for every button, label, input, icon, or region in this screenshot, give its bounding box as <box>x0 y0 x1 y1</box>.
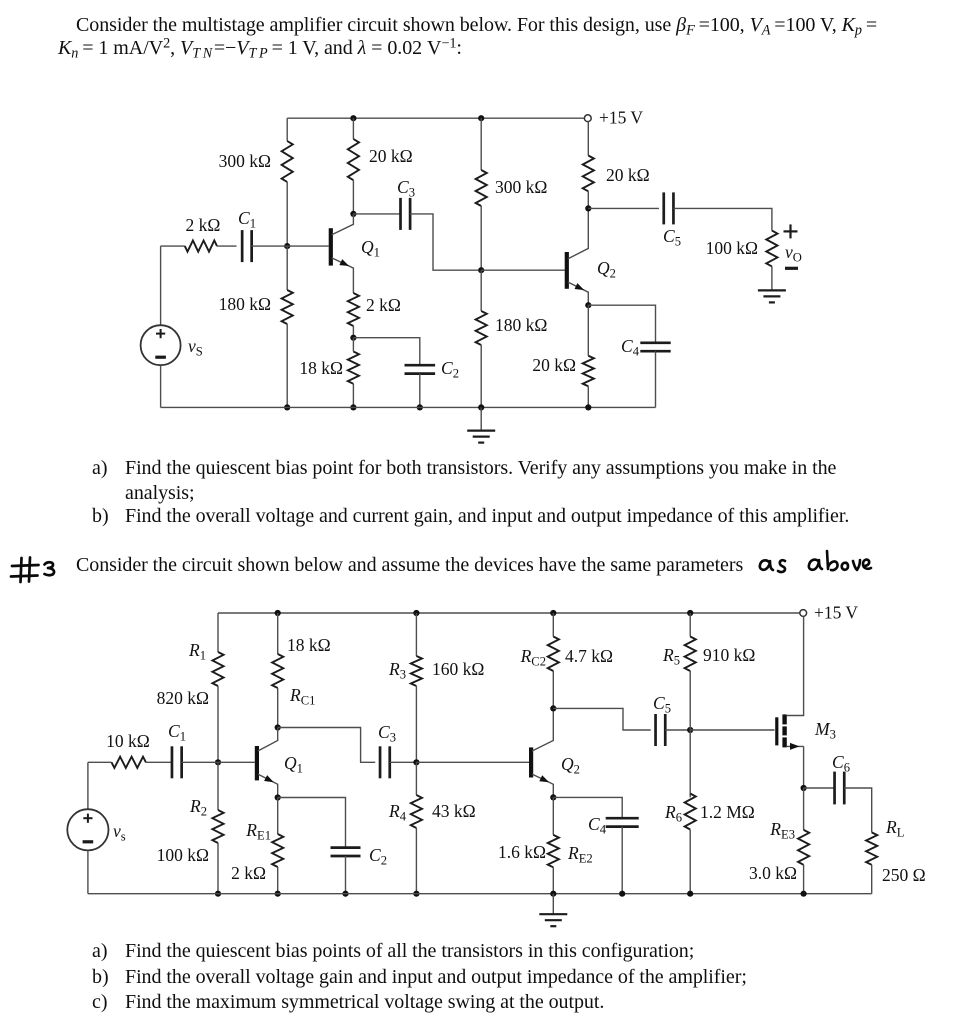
node Q1 base junction <box>284 243 290 249</box>
svg-text:C6: C6 <box>832 752 850 775</box>
resistor R5 910k <box>685 637 696 672</box>
node Q2 collector <box>585 205 591 211</box>
capacitor C1 <box>241 230 244 262</box>
wire collector link to C3 <box>278 728 376 763</box>
capacitor C3 <box>399 198 402 230</box>
svg-text:RE3: RE3 <box>769 819 795 842</box>
resistor RE2 1.6k <box>548 835 559 867</box>
wire R6 to rail <box>689 830 691 894</box>
wire to C1 <box>217 245 237 247</box>
capacitor C4 (2) <box>606 817 639 820</box>
svg-text:RL: RL <box>885 817 904 840</box>
node rail bottom R4 <box>413 891 419 897</box>
resistor 300k stage2 upper <box>476 170 487 206</box>
svg-text:C1: C1 <box>238 208 256 231</box>
wire C1 to base node <box>252 245 288 247</box>
handwritten as <box>760 560 785 572</box>
resistor 18k (emitter bypass leg) <box>348 352 359 384</box>
wire R4 to rail <box>415 828 417 894</box>
wire C6 tap <box>804 787 835 789</box>
resistor R4 43k <box>411 795 422 828</box>
ground symbol main <box>480 407 482 430</box>
resistor RC1 18k <box>272 654 283 688</box>
svg-text:43 kΩ: 43 kΩ <box>432 801 476 821</box>
svg-text:180 kΩ: 180 kΩ <box>219 294 271 314</box>
wire gate <box>690 729 774 731</box>
svg-text:Q1: Q1 <box>361 237 380 260</box>
svg-text:160 kΩ: 160 kΩ <box>432 659 484 679</box>
svg-text:20 kΩ: 20 kΩ <box>606 165 650 185</box>
node rail bottom RE2 <box>550 891 556 897</box>
resistor 20k (Q2 collector) <box>583 156 594 192</box>
wire to bottom rail <box>587 386 589 407</box>
svg-text:vs: vs <box>113 821 126 844</box>
node Q2 collector 2 <box>550 705 556 711</box>
wire source to bottom rail <box>160 365 162 407</box>
wire collector to C5 <box>588 207 659 209</box>
wire 18k to bottom rail <box>352 384 354 408</box>
node bottom rail junction 3 <box>585 404 591 410</box>
wire RC2 top <box>552 613 554 637</box>
wire 20k to collector node <box>587 191 589 208</box>
node Q2 emitter junction 2 <box>550 794 556 800</box>
svg-text:20 kΩ: 20 kΩ <box>532 355 576 375</box>
svg-text:10 kΩ: 10 kΩ <box>106 731 150 751</box>
node rail junction RC1 <box>275 610 281 616</box>
node Q1 collector 2 <box>275 724 281 730</box>
resistor 2k source <box>185 241 217 252</box>
wire C3 to R3 node <box>390 761 417 763</box>
wire 20k collector feed <box>352 118 354 139</box>
resistor RE1 2k <box>272 834 283 867</box>
question list 2 item b <box>92 966 109 989</box>
resistor 10k source 2 <box>112 757 146 768</box>
wire RE1 top <box>277 798 279 835</box>
wire R2 to rail <box>217 843 219 894</box>
svg-text:C3: C3 <box>378 722 396 745</box>
svg-text:M3: M3 <box>814 719 836 742</box>
wire R1 to base <box>217 686 219 762</box>
node Q1 emitter junction <box>275 794 281 800</box>
svg-text:2 kΩ: 2 kΩ <box>186 215 221 235</box>
question list 1 item a <box>92 457 107 480</box>
wire C2 tap <box>353 338 419 366</box>
svg-text:C5: C5 <box>663 226 681 249</box>
wire C1 to base 2 <box>182 761 218 763</box>
wire C2 to bottom rail <box>419 374 421 408</box>
resistor R3 160k <box>411 656 422 686</box>
resistor R1 820k <box>212 652 223 686</box>
wire C4 tap <box>588 305 655 343</box>
wire emitter to node <box>352 326 354 338</box>
node rail bottom RE3 <box>801 891 807 897</box>
power terminal +15 V <box>584 115 591 122</box>
paragraph line 2 <box>58 37 462 60</box>
wire R4 top <box>415 762 417 795</box>
svg-text:910 kΩ: 910 kΩ <box>703 645 755 665</box>
wire +15V to 20k <box>587 122 589 156</box>
wire C6 to RL <box>844 788 872 832</box>
svg-text:RC2: RC2 <box>520 646 546 669</box>
svg-text:C3: C3 <box>397 177 415 200</box>
svg-text:4.7 kΩ: 4.7 kΩ <box>565 646 613 666</box>
svg-text:20 kΩ: 20 kΩ <box>369 146 413 166</box>
node rail junction R5 <box>687 610 693 616</box>
wire R3 to node <box>415 686 417 762</box>
capacitor C4 <box>640 341 670 344</box>
label vo minus <box>785 267 798 270</box>
svg-text:RE1: RE1 <box>245 820 271 843</box>
svg-text:RE2: RE2 <box>567 843 593 866</box>
resistor R6 1.2M <box>685 794 696 830</box>
svg-text:C2: C2 <box>369 845 387 868</box>
node rail bottom R6 <box>687 891 693 897</box>
wire R2 top <box>217 762 219 810</box>
capacitor C3 (2) <box>379 746 382 778</box>
handwritten #3 <box>11 558 54 583</box>
wire Q2 base <box>481 269 529 271</box>
svg-text:100 kΩ: 100 kΩ <box>157 845 209 865</box>
wire input source top <box>161 245 185 247</box>
svg-text:1.6 kΩ: 1.6 kΩ <box>498 842 546 862</box>
node bottom rail junction 2 <box>350 404 356 410</box>
wire mid bus to bottom <box>480 345 482 407</box>
node Q2 base junction <box>478 267 484 273</box>
wire source 2 to rail <box>87 850 89 893</box>
resistor 180k stage2 lower <box>476 311 487 345</box>
node rail bottom R2 <box>215 891 221 897</box>
source vs <box>141 325 181 365</box>
wire top supply rail 2 <box>218 612 800 614</box>
wire collector link to C5 2 <box>553 708 650 730</box>
wire Q1 base 2 <box>218 761 255 763</box>
svg-text:300 kΩ: 300 kΩ <box>219 151 271 171</box>
wire C3 from collector <box>353 213 400 215</box>
wire 20k to collector node <box>352 180 354 214</box>
capacitor C2 <box>405 364 436 367</box>
wire C4 tap 2 <box>553 797 622 818</box>
resistor 180k (R bias lower) <box>282 290 293 324</box>
wire source down <box>803 746 805 788</box>
wire RC1 top <box>277 613 279 654</box>
wire M3 source <box>787 745 804 747</box>
svg-text:18 kΩ: 18 kΩ <box>287 635 331 655</box>
svg-text:3.0 kΩ: 3.0 kΩ <box>749 863 797 883</box>
transistor Q2 (2) <box>529 747 533 777</box>
ground symbol 2 <box>552 894 554 914</box>
wire RE2 top <box>552 797 554 835</box>
svg-text:100 kΩ: 100 kΩ <box>706 238 758 258</box>
svg-text:820 kΩ: 820 kΩ <box>157 688 209 708</box>
wire left bus lower <box>286 246 288 290</box>
wire load to ground <box>771 266 773 289</box>
svg-text:RC1: RC1 <box>289 685 315 708</box>
node C5 R5 junction <box>687 727 693 733</box>
node rail C2 junction <box>342 891 348 897</box>
svg-text:R5: R5 <box>662 645 680 668</box>
transistor Q2 <box>565 252 569 289</box>
wire bottom rail 2 <box>88 893 872 895</box>
wire to C1 2 <box>146 761 172 763</box>
capacitor C2 (2) <box>331 846 361 849</box>
capacitor C6 <box>833 772 836 805</box>
wire mid bus upper <box>480 118 482 170</box>
svg-text:R3: R3 <box>388 659 406 682</box>
svg-text:R2: R2 <box>189 796 207 819</box>
transistor Q1 (2) <box>255 746 259 780</box>
resistor RL 250 <box>866 832 877 864</box>
wire Q2 base 2 <box>416 761 529 763</box>
node rail C4 junction <box>619 891 625 897</box>
mosfet M3 <box>775 717 778 745</box>
wire R6 top <box>689 730 691 797</box>
wire RE1 to rail <box>277 867 279 894</box>
wire C4 to bottom rail <box>655 351 657 407</box>
wire RC1 to collector <box>277 688 279 728</box>
wire left bus to base <box>286 182 288 246</box>
wire R5 to node <box>689 671 691 730</box>
capacitor C1 (2) <box>171 746 174 778</box>
wire input 2 top <box>88 761 112 763</box>
wire RE3 to rail <box>803 865 805 894</box>
wire R5 top <box>689 613 691 637</box>
node source junction <box>801 785 807 791</box>
capacitor C5 (2) <box>654 714 657 746</box>
node rail junction RC2 <box>550 610 556 616</box>
wire R1 top <box>217 613 219 652</box>
wire C5 to load <box>673 208 772 230</box>
paragraph line 1 <box>76 14 877 37</box>
wire RE3 top <box>803 788 805 830</box>
wire mid bus lower <box>480 270 482 311</box>
resistor 100k load <box>766 231 777 267</box>
node Q1 collector <box>350 211 356 217</box>
wire top supply rail <box>287 117 584 119</box>
svg-text:C5: C5 <box>653 693 671 716</box>
node top-rail junction B <box>478 115 484 121</box>
svg-text:C4: C4 <box>621 336 640 359</box>
wire C2 to rail 2 <box>345 856 347 894</box>
svg-text:Q2: Q2 <box>597 258 616 281</box>
ground symbol output <box>758 289 786 291</box>
wire left bus upper <box>286 118 288 141</box>
svg-text:R4: R4 <box>388 801 407 824</box>
svg-text:18 kΩ: 18 kΩ <box>299 358 343 378</box>
wire RL to rail <box>871 865 873 894</box>
svg-text:C2: C2 <box>441 358 459 381</box>
label vo plus <box>784 230 798 232</box>
source vs 2 <box>67 809 108 850</box>
wire RC2 to collector node <box>552 671 554 708</box>
node rail junction R3 <box>413 610 419 616</box>
svg-text:1.2 MΩ: 1.2 MΩ <box>700 802 755 822</box>
wire R3 top <box>415 613 417 656</box>
svg-text:180 kΩ: 180 kΩ <box>495 315 547 335</box>
node Q2 emitter junction <box>585 302 591 308</box>
wire RE2 to rail <box>552 867 554 893</box>
svg-text:vS: vS <box>188 336 203 359</box>
node C2 bottom junction <box>417 404 423 410</box>
svg-text:+15 V: +15 V <box>814 603 858 623</box>
resistor RC2 4.7k <box>548 637 559 672</box>
svg-text:vO: vO <box>785 242 802 265</box>
wire C4 to rail 2 <box>621 827 623 894</box>
svg-text:C1: C1 <box>168 721 186 744</box>
transistor Q1 <box>329 228 333 265</box>
problem 3 statement <box>76 554 743 577</box>
resistor 300k (R bias upper) <box>282 141 293 182</box>
resistor R2 100k <box>212 810 223 843</box>
node Q1 base junction 2 <box>215 759 221 765</box>
node top-rail junction A <box>350 115 356 121</box>
node ground junction <box>478 404 484 410</box>
node rail bottom RE1 <box>275 891 281 897</box>
wire M3 drain <box>787 616 804 715</box>
svg-text:2 kΩ: 2 kΩ <box>231 863 266 883</box>
svg-text:300 kΩ: 300 kΩ <box>495 177 547 197</box>
wire C2 tap 2 <box>278 798 346 848</box>
node R3 R4 junction <box>413 759 419 765</box>
svg-text:Q2: Q2 <box>561 754 580 777</box>
wire C3 to stage2 base <box>410 214 478 270</box>
question list 2 item a <box>92 940 107 963</box>
resistor 2k (Q1 emitter) <box>348 293 359 326</box>
node emitter divider junction <box>350 335 356 341</box>
svg-text:Q1: Q1 <box>284 753 303 776</box>
wire Q1 base <box>287 245 329 247</box>
wire emitter leg <box>587 305 589 356</box>
svg-text:C4: C4 <box>588 814 607 837</box>
svg-text:+15 V: +15 V <box>599 108 643 128</box>
node bottom rail junction <box>284 404 290 410</box>
capacitor C5 <box>662 192 665 224</box>
resistor 20k (Q1 collector) <box>348 139 359 180</box>
handwritten above <box>809 551 871 570</box>
resistor RE3 3k <box>798 830 809 865</box>
svg-text:2 kΩ: 2 kΩ <box>366 295 401 315</box>
power terminal +15 V (2) <box>800 610 807 617</box>
svg-text:250 Ω: 250 Ω <box>882 865 926 885</box>
wire left bus to ground rail <box>286 324 288 407</box>
svg-text:R1: R1 <box>188 640 206 663</box>
wire bottom ground rail <box>161 406 656 408</box>
question list 1 item b <box>92 505 109 528</box>
svg-text:R6: R6 <box>664 802 682 825</box>
wire mid bus to base node <box>480 206 482 270</box>
wire C5 to gate node <box>665 729 690 731</box>
resistor 20k (Q2 emitter) <box>583 356 594 386</box>
question list 2 item c <box>92 991 107 1014</box>
